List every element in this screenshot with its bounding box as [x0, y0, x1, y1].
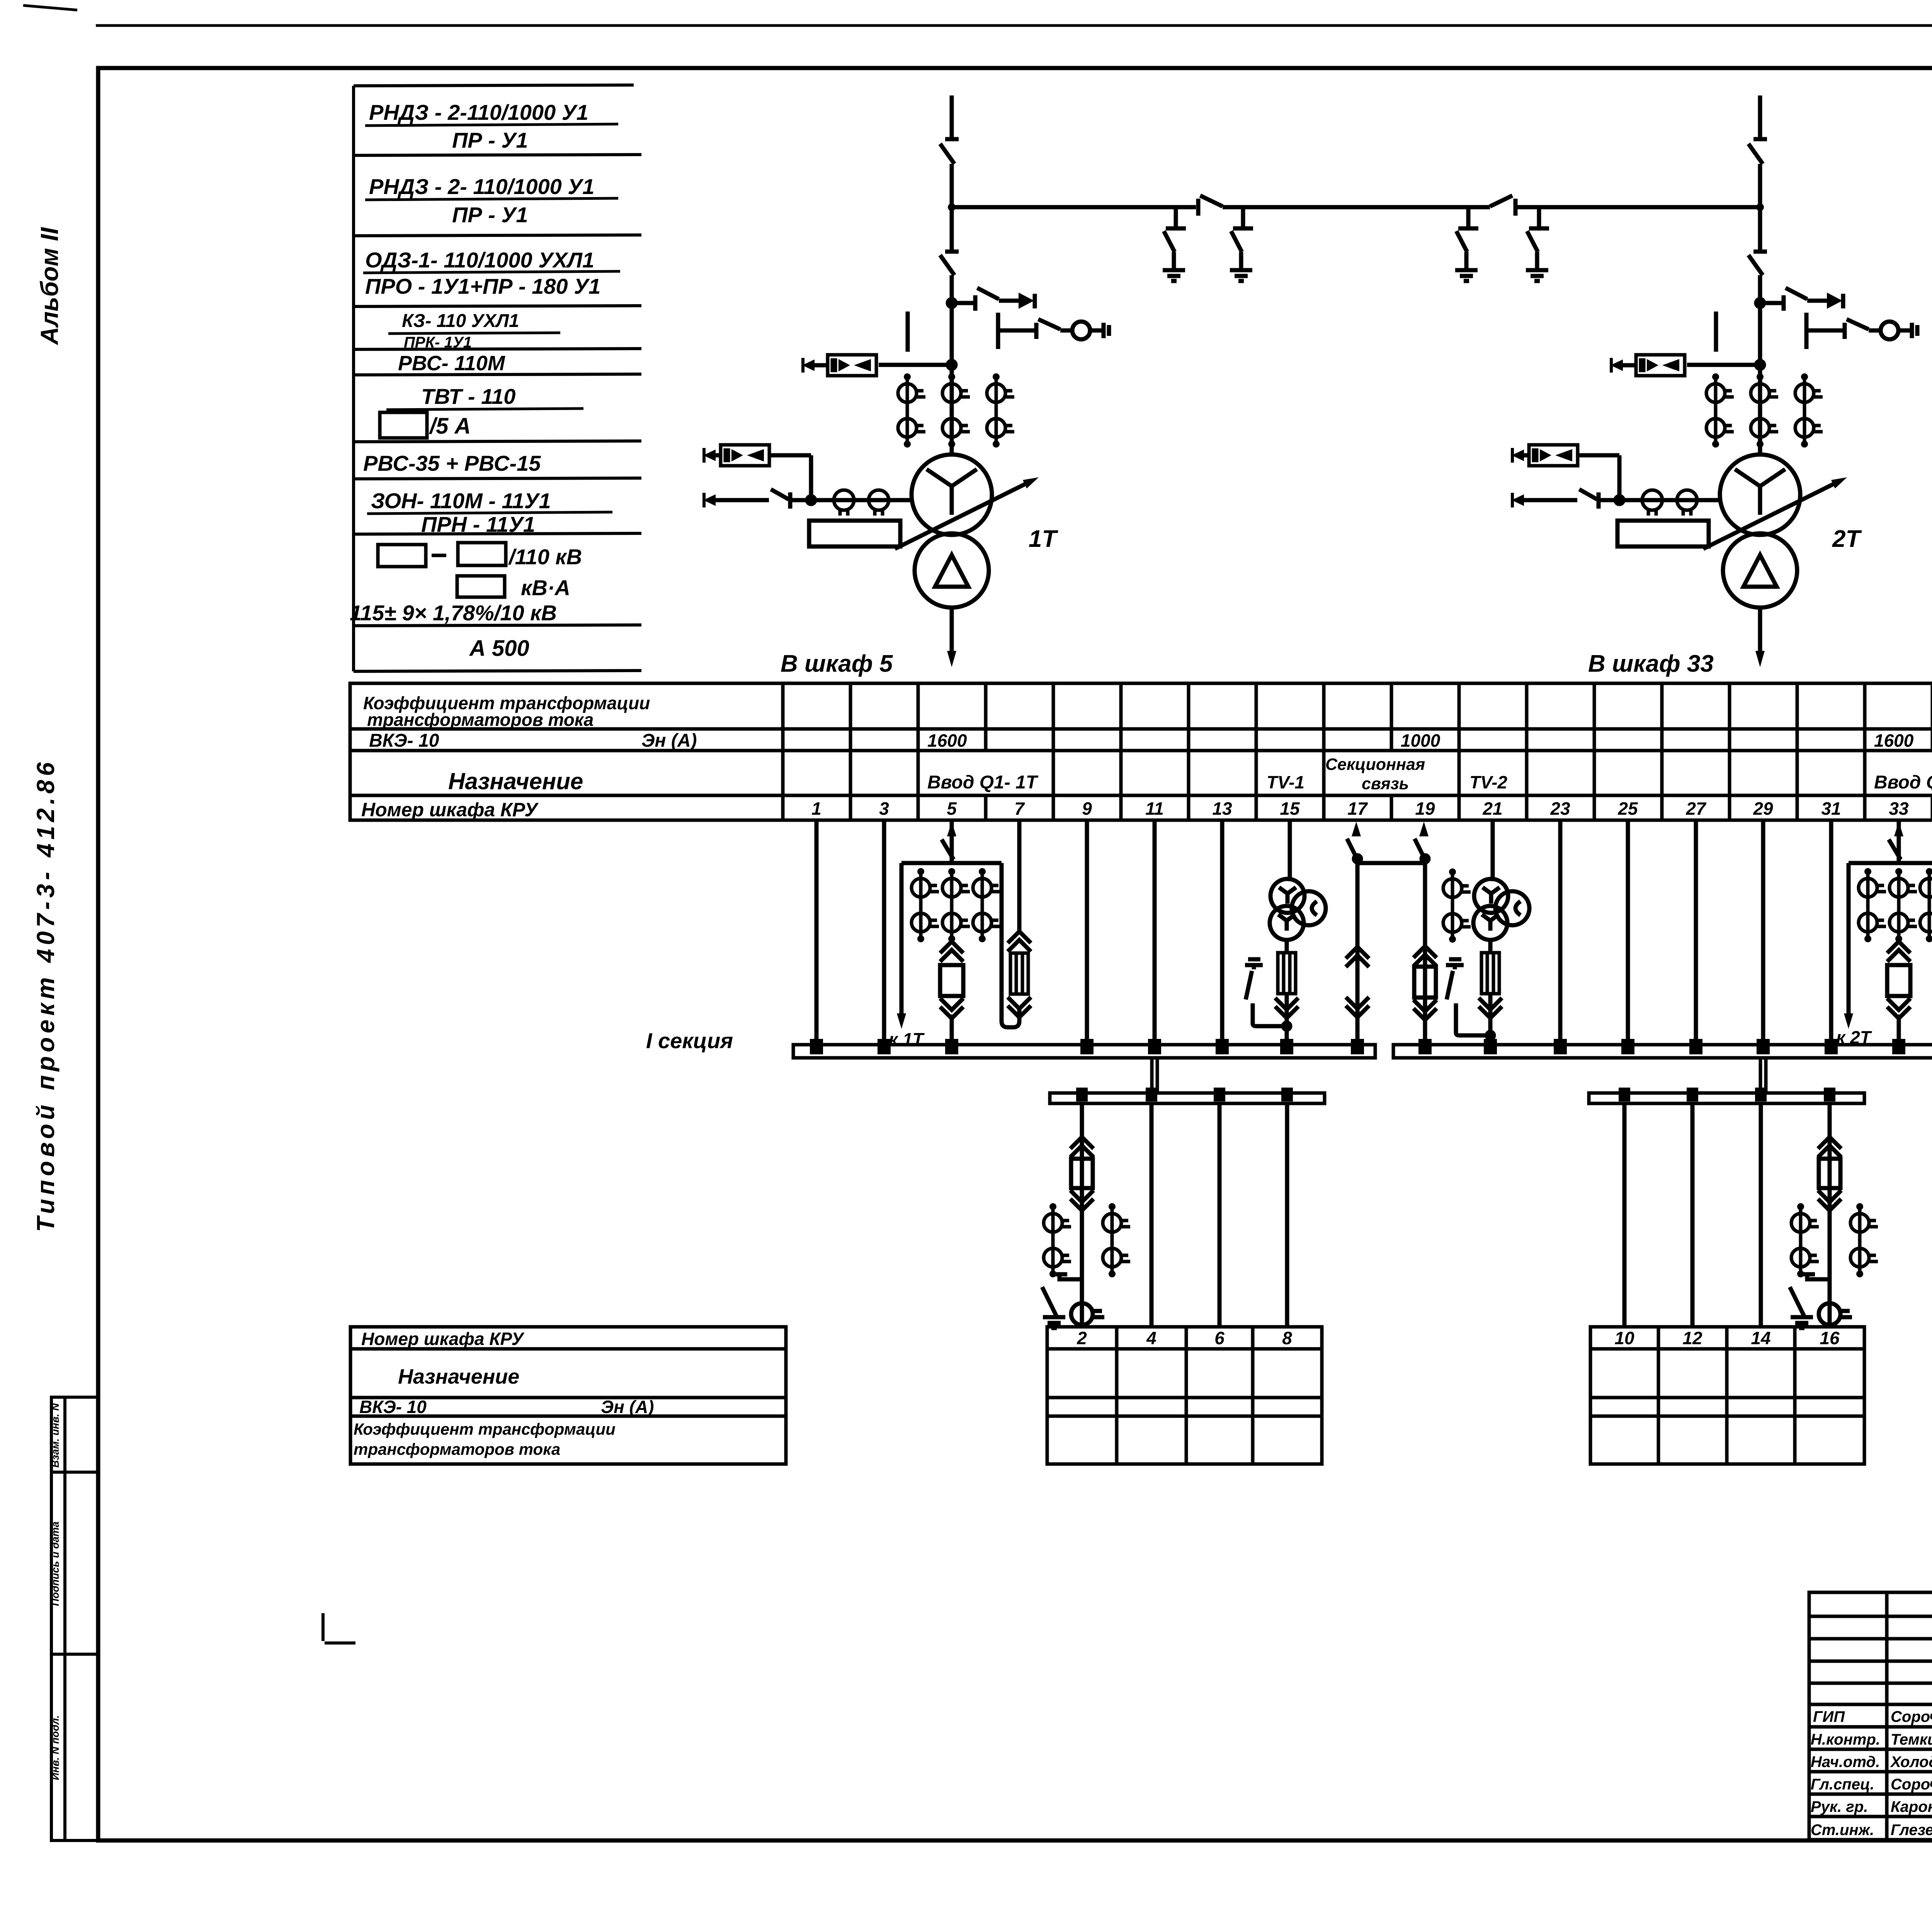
svg-text:ТV-2: ТV-2: [1469, 772, 1507, 792]
CT pair col2 left: [1044, 1203, 1071, 1277]
CT TVT-110 group 2T: [1706, 373, 1823, 448]
wire drop to sub-bus I: [1152, 1058, 1157, 1094]
voltage transformer TV-2: [1473, 820, 1529, 940]
wire feeder col31: [1829, 820, 1833, 1045]
svg-text:Коэффициент трансформации: Коэффициент трансформации: [354, 1420, 616, 1438]
sub-busbar I: [1050, 1093, 1325, 1103]
svg-text:33: 33: [1889, 798, 1909, 819]
wire feeder col10: [1622, 1103, 1627, 1327]
arrester RVS-35+RVS-15 neutral 1T: [703, 445, 811, 500]
svg-text:I секция: I секция: [646, 1028, 733, 1053]
svg-text:10: 10: [1614, 1328, 1634, 1348]
svg-text:1: 1: [811, 798, 821, 819]
node bus I junctions: [810, 1039, 1364, 1054]
value label ODZ-1-110/1000 UHL1 / PRO-1U1+PR-180U1: [363, 248, 620, 298]
svg-text:29: 29: [1753, 798, 1773, 819]
corner mark: [323, 1613, 355, 1643]
svg-text:Эн (А): Эн (А): [641, 730, 697, 751]
earthing switch TV-2: [1446, 959, 1490, 1035]
disconnector tie group B right earthing: [1526, 207, 1549, 281]
svg-text:9: 9: [1082, 798, 1092, 819]
title block signature grid: [1809, 1592, 1932, 1840]
svg-text:Глезер: Глезер: [1891, 1822, 1932, 1839]
svg-text:Инв. N подл.: Инв. N подл.: [49, 1715, 61, 1780]
svg-text:Ст.инж.: Ст.инж.: [1811, 1822, 1874, 1839]
sheet top edge line: [23, 5, 1932, 26]
arrester RVS-110 branch 2T: [1611, 355, 1764, 376]
earthing switch ZON-110 neutral 2T: [1512, 489, 1720, 509]
svg-text:1Т: 1Т: [1029, 526, 1058, 552]
svg-text:ПРН - 11У1: ПРН - 11У1: [421, 512, 535, 536]
svg-text:Сорочайкин: Сорочайкин: [1891, 1776, 1932, 1793]
svg-text:В шкаф 5: В шкаф 5: [781, 650, 893, 677]
svg-text:Ввод Q1- 2Т: Ввод Q1- 2Т: [1874, 772, 1932, 793]
svg-text:РНДЗ - 2-110/1000 У1: РНДЗ - 2-110/1000 У1: [369, 100, 588, 124]
svg-text:31: 31: [1821, 798, 1841, 819]
earthing knife branch 1T upper: [948, 288, 1035, 311]
svg-text:ПРК- 1У1: ПРК- 1У1: [404, 334, 472, 351]
svg-text:ВКЭ- 10: ВКЭ- 10: [369, 730, 439, 751]
disconnector tie group B blade: [1490, 196, 1515, 216]
svg-text:Назначение: Назначение: [398, 1365, 519, 1388]
wire 2T main drop: [1758, 164, 1762, 252]
wire feeder col27: [1694, 820, 1698, 1045]
svg-text:Н.контр.: Н.контр.: [1811, 1731, 1880, 1748]
svg-text:Темкин: Темкин: [1891, 1731, 1932, 1748]
wire 110kV tie: [952, 205, 1760, 209]
value label kVA box: [457, 575, 570, 600]
voltage transformer TV-1: [1270, 820, 1326, 940]
wire feeder col1: [815, 820, 819, 1045]
disconnector QS1 (1T line entry): [940, 144, 954, 164]
svg-text:РВС-35 + РВС-15: РВС-35 + РВС-15: [363, 451, 541, 475]
svg-text:1000: 1000: [1401, 730, 1440, 751]
earthing switch col16: [1790, 1274, 1830, 1328]
drawout breaker cart col5: [940, 941, 963, 1045]
CT pair TV-2: [1443, 868, 1471, 943]
breaker Q1-1T drawout top (col5): [942, 820, 956, 863]
CT pair col2 right: [1103, 1203, 1130, 1277]
disconnector tie group B left earthing: [1455, 207, 1478, 281]
cell TV-1: [1267, 772, 1304, 792]
arrester RVS-110 branch 1T: [802, 355, 956, 376]
cell Ввод Q1-2Т: [1874, 772, 1932, 793]
svg-text:12: 12: [1682, 1328, 1702, 1348]
CT group feeder Q1-2T: [1859, 868, 1932, 942]
svg-text:Номер шкафа КРУ: Номер шкафа КРУ: [361, 1329, 525, 1349]
2T incoming 110kV line: [1753, 95, 1767, 139]
signature roles: [1811, 1708, 1880, 1839]
svg-text:Ввод Q1- 1Т: Ввод Q1- 1Т: [927, 772, 1039, 793]
CT TVT-110 group 1T: [898, 373, 1014, 448]
node 1T tie junction: [948, 203, 956, 211]
wire 2T main drop 2: [1758, 275, 1762, 455]
value label transformer rating boxes /110 kV: [378, 543, 582, 569]
feeder TSN col2: [1070, 1103, 1094, 1327]
lower label table grid: [350, 1327, 786, 1464]
wire feeder col14: [1759, 1103, 1763, 1327]
arrester RVS-35+RVS-15 neutral 2T: [1512, 445, 1619, 500]
svg-text:РНДЗ - 2- 110/1000 У1: РНДЗ - 2- 110/1000 У1: [369, 174, 594, 199]
earthing knife branch 2T upper: [1756, 288, 1843, 311]
svg-text:3: 3: [879, 798, 889, 819]
label 2T: [1832, 526, 1862, 552]
earthing switch col2: [1042, 1274, 1082, 1328]
wire 1T 10kV lead: [947, 608, 956, 667]
CT single col16: [1819, 1303, 1852, 1325]
device box 2T: [1617, 521, 1709, 546]
cell 1600 col5: [927, 730, 967, 751]
svg-text:14: 14: [1751, 1328, 1770, 1348]
svg-text:КЗ- 110 УХЛ1: КЗ- 110 УХЛ1: [402, 311, 519, 331]
wire feeder col3: [882, 820, 886, 1045]
section link bridge: [1357, 861, 1425, 865]
wire feeder col6: [1218, 1103, 1222, 1327]
svg-text:Гл.спец.: Гл.спец.: [1811, 1776, 1874, 1793]
wire 1T main drop: [950, 164, 954, 252]
value label A 500: [469, 636, 529, 661]
svg-text:В шкаф 33: В шкаф 33: [1588, 650, 1714, 677]
svg-text:2: 2: [1077, 1328, 1087, 1348]
node sub-bus I junctions: [1076, 1088, 1293, 1102]
busbar I section: [793, 1045, 1375, 1058]
label I секция: [646, 1028, 733, 1053]
stub mark left of 1T: [906, 312, 910, 352]
disconnector tie group A right earthing: [1230, 207, 1253, 281]
bracket cabinet loop 1T: [897, 863, 1019, 1029]
cell 1600 col33: [1874, 730, 1914, 751]
value label RVS-35 + RVS-15: [363, 451, 541, 475]
value label RNDZ-2-110/1000 U1 / PR-U1: [365, 100, 618, 152]
short-circuiter KZ-110 branch 1T: [998, 313, 1109, 349]
header row labels: [361, 693, 697, 821]
svg-text:Нач.отд.: Нач.отд.: [1811, 1754, 1880, 1771]
wire feeder col12: [1690, 1103, 1695, 1327]
wire feeder col4: [1150, 1103, 1154, 1327]
wire feeder col25: [1626, 820, 1630, 1045]
breaker Q1-2T drawout top (col33): [1889, 820, 1903, 863]
svg-text:кВ·А: кВ·А: [521, 575, 570, 600]
wire feeder col29: [1761, 820, 1765, 1045]
1T incoming 110kV line: [945, 95, 959, 139]
wire drop to sub-bus II: [1760, 1058, 1766, 1094]
margin text: Альбом II: [36, 227, 63, 346]
node 2T tie junction: [1756, 203, 1764, 211]
CT pair col16 right: [1850, 1203, 1878, 1277]
svg-text:Взам. инв. N: Взам. инв. N: [49, 1403, 61, 1468]
disconnector QS2 (1T): [940, 252, 959, 275]
svg-text:ТВТ - 110: ТВТ - 110: [421, 384, 515, 409]
svg-text:связь: связь: [1362, 775, 1409, 793]
svg-text:17: 17: [1347, 798, 1368, 819]
svg-text:Эн (А): Эн (А): [601, 1397, 654, 1417]
svg-text:27: 27: [1685, 798, 1707, 819]
svg-text:Назначение: Назначение: [448, 768, 583, 794]
svg-text:Подпись и дата: Подпись и дата: [49, 1522, 61, 1606]
svg-text:ЗОН- 110М - 11У1: ЗОН- 110М - 11У1: [371, 489, 551, 513]
value label 115±9×1,78%/10 kV: [350, 601, 557, 625]
svg-text:Номер шкафа КРУ: Номер шкафа КРУ: [361, 799, 539, 821]
cell 1000 col19: [1401, 730, 1440, 751]
lower label table texts: [354, 1329, 654, 1458]
wire feeder col23: [1558, 820, 1563, 1045]
value label TVT-110 with box /5 A: [380, 384, 583, 439]
wire feeder col11: [1153, 820, 1157, 1045]
value label KZ-110 UHL1 / PRK-1U1: [388, 311, 560, 351]
label к 2Т: [1836, 1027, 1872, 1047]
breaker section col17: [1346, 822, 1369, 1045]
svg-text:2Т: 2Т: [1832, 526, 1862, 552]
transformer 2T: [1703, 455, 1847, 608]
lower table left numbers: [1077, 1328, 1292, 1348]
svg-text:5: 5: [947, 798, 957, 819]
svg-text:трансформаторов тока: трансформаторов тока: [367, 710, 594, 730]
svg-text:ПР - У1: ПР - У1: [452, 203, 528, 227]
svg-text:1600: 1600: [927, 730, 967, 751]
svg-text:4: 4: [1146, 1328, 1156, 1348]
disconnector tie group A blade: [1198, 196, 1223, 216]
lower table left grid: [1047, 1327, 1322, 1464]
svg-text:ПР - У1: ПР - У1: [452, 128, 528, 152]
svg-text:13: 13: [1212, 798, 1232, 819]
lower table right grid: [1590, 1327, 1864, 1464]
svg-text:ОДЗ-1- 110/1000 УХЛ1: ОДЗ-1- 110/1000 УХЛ1: [365, 248, 594, 272]
fuse TV-2: [1479, 940, 1502, 1045]
transformer 1T: [895, 455, 1039, 608]
wire 2T 10kV lead: [1755, 608, 1765, 667]
disconnector QS3 (2T line entry): [1748, 144, 1763, 164]
value label RVS-110M: [398, 352, 505, 375]
svg-text:ТV-1: ТV-1: [1267, 772, 1304, 792]
cell Секционная связь: [1325, 755, 1425, 793]
CT single col2: [1071, 1303, 1104, 1325]
svg-text:115± 9× 1,78%/10 кВ: 115± 9× 1,78%/10 кВ: [350, 601, 557, 625]
svg-text:Сорочайкин: Сорочайкин: [1891, 1708, 1932, 1725]
neutral CT 1T: [834, 490, 889, 516]
drawout breaker cart col33: [1887, 941, 1910, 1045]
CT group feeder Q1-1T: [912, 868, 1000, 942]
label В шкаф 33: [1588, 650, 1714, 677]
svg-text:Типовой проект 407-3- 412.86: Типовой проект 407-3- 412.86: [32, 758, 60, 1232]
margin stamp labels: [49, 1403, 61, 1780]
label 1T: [1029, 526, 1058, 552]
svg-text:/110 кВ: /110 кВ: [508, 545, 582, 569]
KRU header table grid: [350, 683, 1932, 820]
breaker section col19: [1413, 822, 1437, 1045]
cell Ввод Q1-1Т: [927, 772, 1039, 793]
svg-text:Рук. гр.: Рук. гр.: [1811, 1798, 1868, 1815]
svg-text:ГИП: ГИП: [1813, 1708, 1845, 1725]
earthing switch ZON-110 neutral 1T: [703, 489, 912, 509]
svg-text:РВС- 110М: РВС- 110М: [398, 352, 505, 375]
wire feeder col8: [1285, 1103, 1289, 1327]
cell TV-2: [1469, 772, 1507, 792]
lower table right numbers: [1614, 1328, 1840, 1348]
svg-text:1600: 1600: [1874, 730, 1914, 751]
svg-text:А 500: А 500: [469, 636, 529, 661]
svg-text:16: 16: [1820, 1328, 1840, 1348]
fuse TV-1: [1275, 940, 1298, 1045]
fuse feeder col7: [1008, 820, 1031, 1017]
cabinet numbers row: [811, 798, 1932, 819]
device box 1T: [809, 521, 900, 546]
stub mark left of 2T: [1714, 312, 1718, 352]
svg-text:7: 7: [1014, 798, 1025, 819]
margin text: Типовой проект 407-3-412.86: [32, 758, 60, 1232]
busbar II section: [1393, 1045, 1932, 1058]
svg-text:Секционная: Секционная: [1325, 755, 1425, 774]
svg-text:ПРО - 1У1+ПР - 180 У1: ПРО - 1У1+ПР - 180 У1: [365, 274, 600, 298]
svg-text:19: 19: [1415, 798, 1435, 819]
wire 1T main drop 2: [950, 275, 954, 455]
short-circuiter KZ-110 branch 2T: [1806, 313, 1917, 349]
disconnector tie group A left earthing: [1163, 207, 1186, 281]
svg-text:/5 А: /5 А: [429, 414, 471, 439]
earthing switch TV-1: [1245, 959, 1287, 1026]
svg-text:15: 15: [1280, 798, 1300, 819]
equipment list table grid: [354, 85, 641, 671]
svg-text:Холодков: Холодков: [1890, 1754, 1932, 1771]
value label ZON-110M-11U1 / PRN-11U1: [367, 489, 612, 536]
label В шкаф 5: [781, 650, 893, 677]
svg-text:25: 25: [1617, 798, 1638, 819]
node sub-bus II junctions: [1619, 1088, 1835, 1102]
label к 1Т: [889, 1029, 925, 1049]
svg-text:21: 21: [1482, 798, 1502, 819]
value label RNDZ-2-110/1000 U1 / PR-U1 (2): [365, 174, 618, 227]
CT pair col16 left: [1791, 1203, 1819, 1277]
disconnector QS4 (2T): [1748, 252, 1767, 275]
svg-text:Карон: Карон: [1891, 1798, 1932, 1815]
wire feeder col9: [1085, 820, 1089, 1045]
signature names: [1890, 1708, 1932, 1839]
svg-text:11: 11: [1145, 798, 1164, 819]
svg-text:6: 6: [1214, 1328, 1225, 1348]
sub-busbar II: [1589, 1093, 1864, 1103]
svg-text:ВКЭ- 10: ВКЭ- 10: [359, 1397, 427, 1417]
svg-text:23: 23: [1550, 798, 1570, 819]
feeder TSN col16: [1818, 1103, 1841, 1327]
margin stamp boxes: [51, 1397, 98, 1840]
neutral CT 2T: [1642, 490, 1697, 516]
node bus II junctions: [1418, 1039, 1905, 1054]
wire feeder col13: [1220, 820, 1225, 1045]
bracket cabinet loop 2T: [1844, 863, 1932, 1029]
svg-text:8: 8: [1282, 1328, 1292, 1348]
svg-text:Альбом II: Альбом II: [36, 227, 63, 346]
svg-text:трансформаторов тока: трансформаторов тока: [354, 1440, 560, 1458]
